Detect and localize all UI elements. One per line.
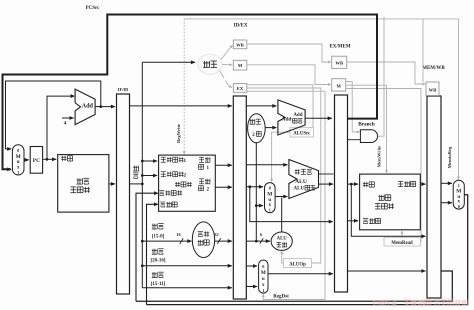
svg-text:MemRead: MemRead	[391, 241, 413, 246]
svg-text:PC: PC	[33, 158, 40, 164]
svg-text:ALU: ALU	[277, 237, 288, 242]
svg-text:0: 0	[262, 264, 264, 269]
svg-text:[20-16]: [20-16]	[151, 258, 166, 263]
svg-text:1: 1	[269, 208, 271, 213]
svg-text:1: 1	[458, 183, 460, 188]
svg-text:[15-11]: [15-11]	[151, 282, 166, 287]
svg-text:Add: Add	[282, 117, 292, 123]
svg-text:1: 1	[17, 170, 19, 175]
svg-text:u: u	[262, 277, 265, 282]
svg-text:16: 16	[176, 232, 180, 237]
svg-text:0: 0	[17, 148, 19, 153]
svg-text:EX/MEM: EX/MEM	[329, 44, 350, 49]
svg-text:MemtoReg: MemtoReg	[447, 146, 452, 168]
svg-text:1: 1	[262, 288, 264, 293]
svg-text:EX: EX	[237, 86, 244, 91]
svg-text:ALU: ALU	[295, 179, 307, 185]
svg-text:M: M	[238, 63, 243, 68]
svg-text:M: M	[456, 189, 461, 195]
svg-text:6: 6	[260, 232, 262, 237]
svg-text:Branch: Branch	[358, 121, 375, 127]
svg-text:WB: WB	[335, 61, 343, 66]
svg-text:M: M	[261, 270, 266, 276]
svg-text:RegDst: RegDst	[273, 294, 289, 299]
svg-text:PCSrc: PCSrc	[86, 6, 101, 11]
svg-text:M: M	[337, 83, 342, 88]
svg-text:ALUOp: ALUOp	[289, 263, 306, 268]
svg-text:0: 0	[269, 186, 271, 191]
svg-text:ALUSrc: ALUSrc	[293, 132, 311, 137]
svg-text:Add: Add	[82, 103, 94, 110]
svg-text:ALU: ALU	[294, 187, 305, 192]
svg-text:ID/EX: ID/EX	[234, 24, 248, 29]
svg-text:M: M	[16, 154, 21, 160]
svg-text:32: 32	[214, 232, 218, 237]
svg-text:M: M	[267, 192, 272, 198]
svg-text:[15-0]: [15-0]	[152, 234, 165, 239]
svg-text:IF/ID: IF/ID	[118, 87, 129, 92]
svg-text:WB: WB	[429, 87, 437, 92]
svg-text:WB: WB	[236, 42, 244, 47]
svg-text:Add: Add	[293, 113, 302, 118]
svg-text:RegWrite: RegWrite	[176, 124, 181, 143]
svg-text:MemWrite: MemWrite	[377, 146, 382, 168]
svg-text:MEM/WB: MEM/WB	[422, 66, 445, 71]
svg-text:CSDN @: CSDN @	[373, 300, 398, 307]
svg-text:0: 0	[458, 204, 460, 209]
